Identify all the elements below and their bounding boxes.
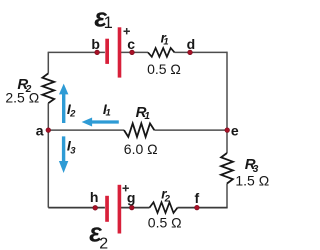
svg-text:d: d [187,36,196,52]
svg-text:1.5 Ω: 1.5 Ω [235,173,269,189]
node g [130,205,135,210]
battery E1 positive plate (long red bar) [118,27,122,77]
wire right lower segment (R3 to bottom-right corner) [226,184,228,209]
svg-text:2: 2 [99,235,108,250]
svg-text:c: c [127,36,135,52]
svg-text:1: 1 [104,14,113,32]
node e (junction dot) [225,128,230,133]
current arrow I3 (blue, pointing down) [59,136,68,173]
svg-text:h: h [90,189,99,205]
svg-text:1: 1 [106,108,111,119]
battery E1 plus sign [124,28,130,34]
svg-text:e: e [231,122,239,138]
svg-text:1: 1 [163,37,168,48]
svg-text:a: a [36,122,44,138]
current arrow I2 (blue, pointing up) [59,84,68,123]
svg-text:0.5 Ω: 0.5 Ω [148,215,182,231]
resistor R1 (zigzag, middle wire) [124,123,154,136]
svg-text:g: g [127,190,136,206]
node h [93,206,98,211]
svg-text:3: 3 [70,146,76,157]
battery E2 positive plate (long red bar) [118,185,122,234]
wire top-left segment (corner to battery E1 negative plate) [48,51,105,53]
svg-text:6.0 Ω: 6.0 Ω [124,141,158,157]
svg-text:2: 2 [164,193,171,204]
battery E2 plus sign [123,185,129,191]
svg-text:2: 2 [69,109,76,120]
svg-text:0.5 Ω: 0.5 Ω [147,61,181,77]
node d [188,50,193,55]
wire right upper segment (top-right corner through node e to R3) [226,52,228,153]
wire left lower segment (R2 through node a to bottom-left corner) [47,103,49,207]
svg-text:f: f [194,190,199,206]
resistor r2 (zigzag, bottom wire) [150,202,178,213]
svg-text:b: b [91,36,100,52]
node b [95,50,100,55]
current arrow I1 (blue, pointing left) [82,118,119,127]
wire top-right segment (resistor r1 to top-right corner) [175,51,228,53]
wire bottom middle segment (battery E2 through node g to resistor r2) [121,207,150,209]
wire bottom-right segment (resistor r2 through node f to bottom-right corner) [178,207,228,209]
wire middle left segment (node a to R1) [48,129,124,131]
node c [130,50,135,55]
wire top segment (battery E1 positive plate to resistor r1) [121,51,148,53]
node f [195,205,200,210]
svg-text:2.5 Ω: 2.5 Ω [5,90,39,106]
wire middle right segment (R1 to node e) [154,129,227,131]
battery E1 negative plate (short thick red bar) [105,39,109,64]
resistor R2 (zigzag, left wire) [42,73,54,103]
wire bottom-left segment (bottom-left corner through node h to battery E2) [48,207,105,209]
svg-text:1: 1 [144,111,150,122]
wire left upper segment (top-left corner to R2) [47,52,49,74]
resistor r1 (zigzag, top wire) [148,48,175,57]
node a (junction dot) [46,128,51,133]
battery E2 negative plate (short thick red bar) [105,196,109,222]
resistor R3 (zigzag, right wire) [221,153,233,184]
